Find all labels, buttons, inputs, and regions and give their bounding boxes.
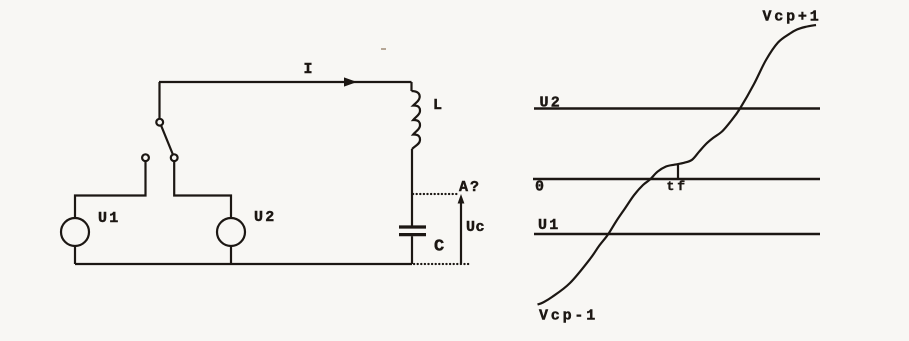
svg-text:Uc: Uc — [466, 219, 485, 236]
graph axis 0 — [533, 179, 820, 196]
svg-text:0: 0 — [535, 179, 544, 196]
voltage arrow Uc — [458, 194, 485, 264]
dotted node line to A — [413, 193, 459, 195]
current arrow I — [304, 61, 358, 87]
graph axis U1 — [534, 217, 820, 234]
svg-text:L: L — [433, 97, 442, 114]
wire capacitor bottom — [411, 236, 413, 264]
graph axis U2 — [534, 95, 820, 112]
svg-text:A?: A? — [459, 179, 481, 196]
svg-text:I: I — [304, 61, 313, 78]
svg-text:C: C — [434, 238, 444, 257]
svg-text:Vcp-1: Vcp-1 — [539, 308, 598, 325]
svg-text:Vcp+1: Vcp+1 — [763, 9, 822, 26]
scan speck — [381, 48, 386, 50]
wire U2 bottom — [230, 246, 232, 264]
svg-text:U1: U1 — [98, 210, 120, 227]
svg-text:U2: U2 — [254, 209, 276, 226]
voltage source U1 — [61, 210, 120, 246]
wire U1 bottom — [74, 246, 76, 264]
wire bottom rail — [75, 263, 412, 265]
dotted bottom rail extension — [414, 263, 470, 265]
svg-text:tf: tf — [667, 179, 689, 194]
switch S (changeover) — [142, 119, 178, 161]
wire top horizontal (switch pole to inductor) — [159, 81, 412, 83]
voltage source U2 — [217, 209, 276, 246]
wire right contact to U2 branch — [174, 161, 231, 218]
inductor L — [412, 82, 443, 226]
capacitor C — [399, 227, 444, 257]
svg-text:U2: U2 — [540, 95, 562, 112]
wire left contact to U1 branch — [75, 161, 146, 218]
waveform curve Uc(t) — [538, 25, 817, 305]
svg-text:U1: U1 — [538, 217, 560, 234]
wire switch pole vertical — [158, 82, 160, 119]
tf tick mark — [677, 165, 679, 180]
